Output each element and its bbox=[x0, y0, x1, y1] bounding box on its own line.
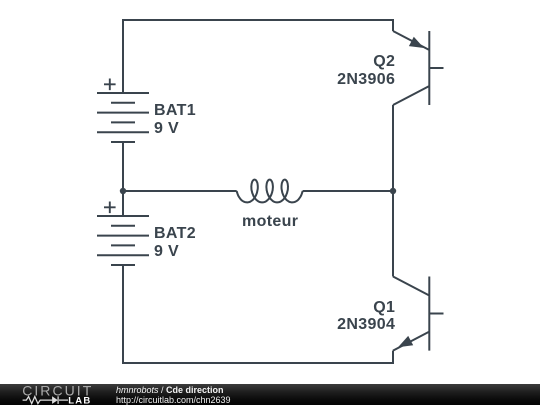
svg-text:LAB: LAB bbox=[68, 395, 91, 405]
